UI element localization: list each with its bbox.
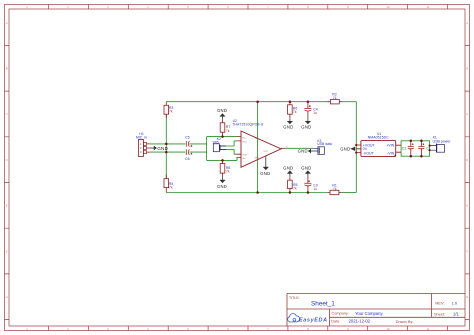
svg-text:7k: 7k xyxy=(293,187,297,191)
svg-text:MIC_in: MIC_in xyxy=(136,135,147,139)
svg-text:Sheet_1: Sheet_1 xyxy=(311,301,335,308)
svg-text:NMA0515DC: NMA0515DC xyxy=(368,136,389,140)
junction K1 pin1 xyxy=(429,145,431,147)
svg-text:+VIN: +VIN xyxy=(386,143,394,147)
wire RG2 jog xyxy=(220,150,237,155)
svg-text:USB data: USB data xyxy=(317,142,332,146)
svg-text:Drawn By:: Drawn By: xyxy=(396,320,414,324)
svg-text:E: E xyxy=(6,204,8,208)
svg-text:11: 11 xyxy=(427,5,430,9)
resistor R8 xyxy=(220,160,230,177)
svg-text:7k: 7k xyxy=(293,110,297,114)
resistor R4 xyxy=(164,175,173,193)
junction U1 -VOUT xyxy=(355,152,357,154)
junction VEE tap on -V rail xyxy=(256,191,259,194)
EasyEDA logo xyxy=(288,314,327,324)
junction C3 on -V rail xyxy=(307,191,310,194)
svg-text:7k: 7k xyxy=(169,186,173,190)
capacitor C5 xyxy=(185,135,192,146)
junction C2 top xyxy=(410,140,413,143)
ground flag at K3 xyxy=(298,149,311,154)
svg-text:GND: GND xyxy=(283,165,293,170)
svg-text:THAT1510QPO8-U: THAT1510QPO8-U xyxy=(232,122,264,126)
svg-text:A: A xyxy=(6,21,8,25)
op-amp U2 xyxy=(232,119,288,167)
svg-text:-VOUT: -VOUT xyxy=(363,152,375,156)
wire USB cap loop xyxy=(401,141,430,156)
ground flag at U1 0V xyxy=(340,146,355,151)
svg-text:Company:: Company: xyxy=(332,312,349,316)
wire to IN- xyxy=(207,158,237,161)
junction K1 pin2 xyxy=(429,149,431,151)
connector K3 USB data xyxy=(311,139,332,154)
svg-text:IN-: IN- xyxy=(243,158,246,160)
svg-text:B: B xyxy=(6,67,8,71)
svg-text:REV:: REV: xyxy=(435,301,444,306)
svg-text:Sheet:: Sheet: xyxy=(434,312,445,316)
resistor R6 xyxy=(288,102,298,119)
connector K1 USB power xyxy=(430,135,452,152)
svg-text:GND: GND xyxy=(301,165,311,170)
svg-text:F: F xyxy=(6,249,8,253)
svg-text:7k: 7k xyxy=(169,110,173,114)
resistor R5 xyxy=(288,176,298,192)
wire to IN+ xyxy=(207,136,237,138)
wire input loop vertical xyxy=(206,137,208,161)
junction C2 bottom xyxy=(410,155,413,158)
junction R8 / IN- rail xyxy=(221,159,224,162)
svg-text:EasyEDA: EasyEDA xyxy=(299,317,327,323)
trimmer K2 SR5 xyxy=(213,137,227,152)
ground flag at H1 xyxy=(150,146,169,151)
ground flag below C4 xyxy=(301,118,311,129)
svg-text:C: C xyxy=(6,112,8,116)
junction C4 on +V rail xyxy=(307,100,310,103)
ground flag below R8 xyxy=(217,177,227,189)
wire RG1 jog xyxy=(220,141,237,146)
ground flag above R7 xyxy=(217,108,227,119)
svg-text:G: G xyxy=(466,295,468,299)
wire right vertical xyxy=(355,102,357,193)
svg-text:GND: GND xyxy=(340,146,350,151)
junction U1 +VOUT xyxy=(355,144,357,146)
svg-text:GND: GND xyxy=(283,125,293,130)
svg-text:2021-12-02: 2021-12-02 xyxy=(349,319,371,324)
capacitor C1 xyxy=(418,141,430,156)
svg-text:C6: C6 xyxy=(185,157,190,161)
capacitor C4 xyxy=(304,102,317,119)
svg-text:E: E xyxy=(466,204,468,208)
svg-text:1/1: 1/1 xyxy=(453,312,459,317)
svg-text:-VIN: -VIN xyxy=(387,152,395,156)
svg-text:Date:: Date: xyxy=(331,319,340,323)
resistor R3 xyxy=(164,102,173,119)
ground flag below op-amp xyxy=(260,157,270,177)
svg-text:C5: C5 xyxy=(185,135,190,139)
svg-text:7k: 7k xyxy=(333,96,337,100)
svg-text:10: 10 xyxy=(386,5,390,9)
svg-text:GND: GND xyxy=(301,125,311,130)
resistor R2 xyxy=(327,93,342,104)
svg-text:TITLE:: TITLE: xyxy=(289,296,300,300)
capacitor C6 xyxy=(185,149,192,161)
resistor R7 xyxy=(220,119,230,137)
svg-text:A: A xyxy=(466,21,468,25)
TITLE BLOCK xyxy=(287,294,465,327)
wire op-amp output xyxy=(285,147,313,149)
svg-text:10: 10 xyxy=(386,327,390,331)
ground flag below R6 xyxy=(283,118,293,129)
ground flag above C3 xyxy=(301,165,311,176)
ground flag above R5 xyxy=(283,165,293,176)
svg-text:GND: GND xyxy=(217,108,227,113)
wire mic bottom xyxy=(150,151,207,153)
connector H1 MIC_in xyxy=(136,132,150,157)
wire mic top xyxy=(150,143,207,145)
svg-text:F: F xyxy=(466,249,468,253)
svg-text:D: D xyxy=(6,158,8,162)
svg-text:Your Company: Your Company xyxy=(355,311,383,316)
junction H1 pin1 / R3 node xyxy=(165,143,168,146)
svg-text:C: C xyxy=(466,112,468,116)
svg-text:G: G xyxy=(6,295,8,299)
junction C1 bottom xyxy=(420,155,423,158)
wire VCC-VEE vertical xyxy=(257,102,259,193)
wire top rail xyxy=(166,101,356,103)
svg-text:GND: GND xyxy=(298,149,308,154)
junction R6 on +V rail xyxy=(289,100,292,103)
wire bottom rail xyxy=(166,192,356,194)
svg-text:GND: GND xyxy=(217,184,227,189)
capacitor C3 xyxy=(304,177,317,193)
svg-text:GND: GND xyxy=(260,171,270,176)
capacitor C2 xyxy=(402,141,414,156)
svg-text:D: D xyxy=(466,158,468,162)
svg-text:7k: 7k xyxy=(226,170,230,174)
wire left vertical xyxy=(165,114,167,179)
resistor R1 xyxy=(327,184,342,195)
svg-text:7k: 7k xyxy=(226,129,230,133)
svg-text:11: 11 xyxy=(427,327,430,331)
svg-text:VCC: VCC xyxy=(255,138,260,140)
svg-text:1.0: 1.0 xyxy=(452,301,458,306)
svg-text:GND: GND xyxy=(157,146,168,151)
svg-text:VEE: VEE xyxy=(255,158,260,160)
dcdc module U1 NMA0515DC xyxy=(356,132,401,156)
junction H1 pin3 / R4 node xyxy=(165,151,168,154)
junction R7 / IN+ rail xyxy=(221,135,224,138)
svg-text:7k: 7k xyxy=(333,187,337,191)
svg-text:C2: C2 xyxy=(402,146,406,150)
junction R5 on -V rail xyxy=(289,191,292,194)
svg-text:1u: 1u xyxy=(313,187,317,191)
svg-text:B: B xyxy=(466,67,468,71)
svg-text:USB power: USB power xyxy=(433,139,452,143)
junction VCC tap on +V rail xyxy=(256,100,259,103)
svg-text:1u: 1u xyxy=(313,111,317,115)
junction C1 top xyxy=(420,140,423,143)
